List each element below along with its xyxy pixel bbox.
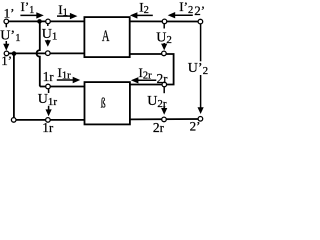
wire left rail vertical [13, 54, 15, 120]
terminal 1 bottom [46, 51, 51, 56]
svg-text:2’: 2’ [190, 118, 201, 133]
current arrow I1r [57, 79, 74, 81]
svg-text:1r: 1r [42, 120, 54, 135]
terminal 1' bottom [4, 51, 9, 56]
current arrow I'1 [20, 14, 37, 16]
wire series link with hop over mid-left wire [36, 21, 84, 86]
svg-text:1’: 1’ [1, 53, 12, 68]
svg-text:A: A [102, 28, 110, 45]
voltage arrow U2 [163, 24, 165, 29]
svg-text:1’: 1’ [4, 5, 15, 20]
terminal 1' top [4, 19, 9, 24]
svg-text:2r: 2r [153, 120, 165, 135]
terminal 2r top [162, 82, 167, 87]
current arrow I1 [57, 15, 71, 17]
terminal 1r bottom [46, 118, 51, 123]
current arrow I2 [136, 14, 153, 16]
wire top rail right [130, 20, 201, 22]
terminal 2' top [198, 19, 203, 24]
terminal 2 bottom [162, 51, 167, 56]
terminal 1r top [46, 84, 51, 89]
terminal 2r bottom [162, 117, 167, 122]
block A [84, 17, 129, 57]
voltage arrow U2r [163, 87, 165, 93]
wire bottom rail right [130, 118, 201, 120]
wire mid-right with bend down [130, 54, 174, 85]
terminal 1 top [46, 19, 51, 24]
node dot mid-left [12, 51, 17, 56]
wire bottom rail left [14, 119, 85, 121]
svg-text:ß: ß [101, 97, 106, 112]
current arrow I'2 [174, 14, 193, 16]
node dot top [37, 19, 42, 24]
wire 2r [130, 84, 175, 86]
block B (beta) [85, 82, 130, 124]
svg-text:2r: 2r [157, 71, 169, 86]
svg-text:2’: 2’ [194, 3, 205, 18]
current arrow I2r [137, 79, 156, 81]
wire top rail left [6, 20, 84, 22]
voltage arrow U'2 (long, right edge) [200, 24, 202, 61]
svg-text:1r: 1r [43, 69, 55, 84]
voltage arrow U'1 [5, 24, 7, 28]
voltage arrow U1 [47, 24, 49, 26]
wire mid-left [7, 52, 85, 54]
terminal 2 top [162, 19, 167, 24]
voltage arrow U1r [48, 89, 50, 93]
terminal 2' bottom [198, 117, 203, 122]
terminal bottom-left [11, 118, 16, 123]
